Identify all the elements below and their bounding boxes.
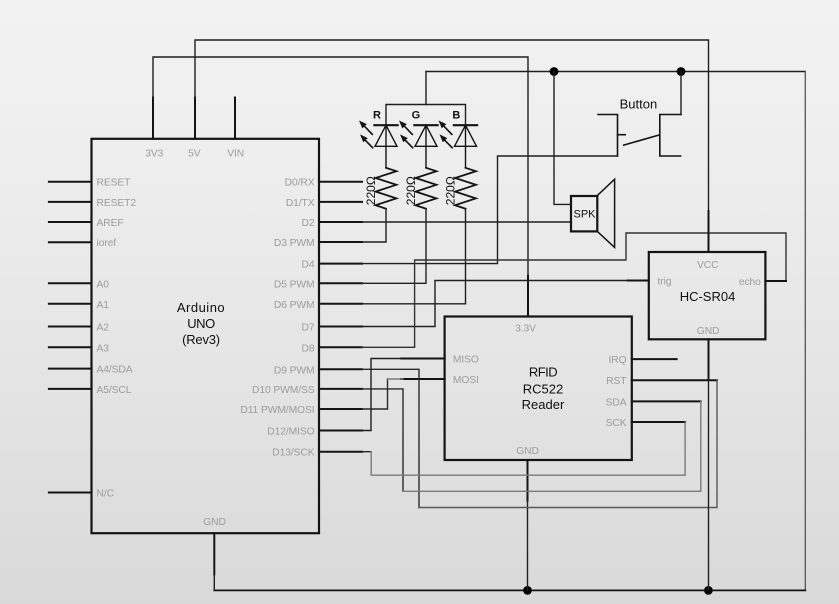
pin A5/SCL stub bbox=[49, 388, 92, 390]
HC-SR04 box U3 bbox=[649, 252, 766, 339]
wire R resistor to D3 bbox=[362, 209, 386, 242]
svg-text:RFID: RFID bbox=[529, 365, 557, 380]
svg-text:IRQ: IRQ bbox=[608, 355, 626, 366]
pin MOSI stub (RFID) bbox=[401, 378, 445, 380]
pin RESET stub bbox=[49, 181, 92, 183]
resistor R1 220Ω bbox=[376, 168, 397, 209]
wire 5V to HC-SR04 VCC bbox=[195, 40, 709, 252]
svg-text:D10 PWM/SS: D10 PWM/SS bbox=[252, 385, 315, 396]
node junction dot (button riser / GND rail) bbox=[677, 67, 686, 76]
svg-text:D4: D4 bbox=[302, 260, 315, 271]
svg-text:D2: D2 bbox=[302, 218, 315, 229]
svg-text:D6 PWM: D6 PWM bbox=[274, 300, 315, 311]
RFID RC522 Reader box U2 bbox=[445, 317, 632, 461]
svg-text:(Rev3): (Rev3) bbox=[182, 332, 220, 347]
svg-text:RC522: RC522 bbox=[523, 381, 563, 396]
node junction dot (speaker riser / GND rail) bbox=[550, 67, 559, 76]
pin 5V stub bbox=[194, 98, 196, 139]
RFID pin labels bbox=[453, 324, 627, 458]
pin VCC stub (HC-SR04) bbox=[708, 211, 710, 252]
pin RESET2 stub bbox=[49, 201, 92, 203]
svg-text:RESET2: RESET2 bbox=[97, 198, 137, 209]
wire D9 to RFID RST (near pin) bbox=[362, 369, 419, 507]
svg-text:B: B bbox=[452, 110, 460, 122]
svg-text:AREF: AREF bbox=[97, 218, 124, 229]
wire D2 to speaker bbox=[362, 221, 571, 223]
svg-text:GND: GND bbox=[697, 326, 720, 337]
speaker SPK bbox=[571, 179, 615, 247]
pin AREF stub bbox=[49, 221, 92, 223]
pin D11 PWM/MOSI stub bbox=[319, 408, 362, 410]
svg-text:VCC: VCC bbox=[697, 260, 719, 271]
wire D13 to RFID SCK (wrap) bbox=[371, 422, 685, 475]
wire RFID GND to bottom rail bbox=[527, 501, 529, 590]
wire Arduino GND riser bbox=[213, 575, 215, 591]
svg-text:A5/SCL: A5/SCL bbox=[97, 385, 132, 396]
wire D4 to button bbox=[362, 156, 618, 264]
svg-text:R: R bbox=[373, 110, 381, 122]
pin D6 PWM stub bbox=[319, 303, 362, 305]
svg-text:D0/RX: D0/RX bbox=[285, 178, 315, 189]
svg-text:D1/TX: D1/TX bbox=[286, 198, 315, 209]
svg-text:GND: GND bbox=[203, 517, 226, 528]
svg-text:A0: A0 bbox=[97, 279, 110, 290]
svg-text:D8: D8 bbox=[302, 343, 315, 354]
wire D10 to RFID SDA (wrap) bbox=[403, 401, 701, 491]
pin D13/SCK stub bbox=[319, 451, 362, 453]
wire 3V3 to RFID 3.3V bbox=[153, 57, 528, 317]
svg-text:SDA: SDA bbox=[606, 397, 627, 408]
pin A0 stub bbox=[49, 282, 92, 284]
wire D7 to HC-SR04 trig bbox=[362, 281, 649, 327]
Arduino left pin labels bbox=[97, 178, 137, 500]
svg-text:220Ω: 220Ω bbox=[364, 176, 378, 205]
HC-SR04 pin labels bbox=[658, 260, 762, 337]
pin 3.3V stub (RFID) bbox=[527, 276, 529, 317]
svg-text:echo: echo bbox=[739, 277, 761, 288]
svg-text:HC-SR04: HC-SR04 bbox=[680, 289, 736, 304]
svg-text:SPK: SPK bbox=[573, 209, 596, 221]
svg-text:GND: GND bbox=[516, 446, 539, 457]
pin D8 stub bbox=[319, 346, 362, 348]
pin D9 PWM stub bbox=[319, 368, 362, 370]
node junction dot (HC-SR04 GND / bottom rail) bbox=[704, 586, 713, 595]
svg-text:3.3V: 3.3V bbox=[515, 324, 536, 335]
pin echo stub (HC-SR04) bbox=[765, 280, 786, 282]
pin D1/TX stub bbox=[319, 201, 362, 203]
Arduino title text bbox=[177, 300, 225, 347]
node junction dot (RFID GND / bottom rail) bbox=[523, 586, 532, 595]
pin D3 PWM stub bbox=[319, 241, 362, 243]
svg-text:A1: A1 bbox=[97, 300, 110, 311]
pin A3 stub bbox=[49, 346, 92, 348]
pin GND stub (Arduino bottom) bbox=[213, 533, 215, 574]
svg-text:ioref: ioref bbox=[97, 238, 117, 249]
Arduino top pin labels bbox=[145, 148, 244, 159]
wire D11 to RFID MOSI (jog) bbox=[388, 378, 404, 380]
pin 3V3 stub bbox=[152, 98, 154, 139]
svg-text:UNO: UNO bbox=[187, 316, 215, 331]
pin D0/RX stub bbox=[319, 181, 362, 183]
svg-text:Reader: Reader bbox=[522, 397, 565, 412]
svg-text:Arduino: Arduino bbox=[177, 300, 225, 315]
wire D10 to RFID SDA (near pin) bbox=[362, 389, 403, 491]
wire D9 to RFID RST (wrap) bbox=[419, 380, 717, 507]
pin N/C stub bbox=[49, 492, 92, 494]
svg-text:220Ω: 220Ω bbox=[404, 176, 418, 205]
wire speaker to GND rail bbox=[554, 72, 571, 205]
pin A1 stub bbox=[49, 303, 92, 305]
svg-text:5V: 5V bbox=[188, 148, 201, 159]
pin trig stub (HC-SR04) bbox=[628, 280, 649, 282]
svg-text:MOSI: MOSI bbox=[453, 375, 479, 386]
wire HC-SR04 GND to bottom rail bbox=[708, 380, 710, 590]
svg-text:N/C: N/C bbox=[97, 489, 115, 500]
wire button riser to GND rail bbox=[680, 72, 682, 115]
pin MISO stub (RFID) bbox=[401, 358, 445, 360]
pin SCK stub (RFID) bbox=[632, 421, 685, 423]
wire D12 to RFID MISO bbox=[362, 359, 401, 431]
svg-text:MISO: MISO bbox=[453, 355, 479, 366]
svg-text:A2: A2 bbox=[97, 323, 110, 334]
wire GND top rail bbox=[426, 71, 805, 73]
LED B (D3) bbox=[439, 121, 478, 168]
wire G resistor to D5 bbox=[362, 209, 426, 284]
wire B resistor to D6 bbox=[362, 209, 466, 304]
svg-text:D9 PWM: D9 PWM bbox=[274, 365, 315, 376]
resistor R2 220Ω bbox=[416, 168, 437, 209]
pin A4/SDA stub bbox=[49, 368, 92, 370]
pin D5 PWM stub bbox=[319, 282, 362, 284]
resistor R3 220Ω bbox=[455, 168, 476, 209]
wire GND bottom rail bbox=[214, 589, 805, 591]
svg-text:220Ω: 220Ω bbox=[444, 176, 458, 205]
pin D4 stub bbox=[319, 263, 362, 265]
LED R (D1) bbox=[359, 121, 398, 168]
svg-text:D3 PWM: D3 PWM bbox=[274, 238, 315, 249]
svg-text:trig: trig bbox=[658, 277, 672, 288]
LED G (D2) bbox=[399, 121, 438, 168]
pin SDA stub (RFID) bbox=[632, 400, 701, 402]
svg-text:D7: D7 bbox=[302, 323, 315, 334]
label RFID RC522 Reader bbox=[522, 365, 565, 412]
switch SW1 (Button) bbox=[598, 115, 681, 157]
Arduino right pin labels bbox=[240, 178, 315, 459]
pin D2 stub bbox=[319, 221, 362, 223]
svg-text:D11 PWM/MOSI: D11 PWM/MOSI bbox=[240, 405, 314, 416]
svg-text:A3: A3 bbox=[97, 343, 110, 354]
svg-text:Button: Button bbox=[620, 96, 658, 111]
wire LED common-cathode bracket bbox=[386, 105, 466, 126]
pin IRQ stub (RFID) bbox=[632, 358, 677, 360]
svg-text:A4/SDA: A4/SDA bbox=[97, 365, 133, 376]
wire D11 to RFID MOSI (near pin) bbox=[362, 379, 388, 409]
wire D13 to RFID SCK (near pin) bbox=[362, 451, 371, 453]
wire D8 to HC-SR04 echo bbox=[362, 233, 786, 347]
pin GND stub (RFID) bbox=[527, 460, 529, 501]
Arduino UNO box U1 bbox=[92, 139, 320, 533]
pin GND stub (HC-SR04) bbox=[708, 339, 710, 380]
pin D7 stub bbox=[319, 326, 362, 328]
svg-text:SCK: SCK bbox=[606, 418, 627, 429]
wire LED bracket riser to GND rail bbox=[425, 72, 427, 105]
pin VIN stub bbox=[234, 98, 236, 139]
svg-text:D13/SCK: D13/SCK bbox=[272, 448, 314, 459]
svg-text:3V3: 3V3 bbox=[145, 148, 163, 159]
svg-text:RESET: RESET bbox=[97, 178, 132, 189]
pin D12/MISO stub bbox=[319, 430, 362, 432]
pin D10 PWM/SS stub bbox=[319, 388, 362, 390]
svg-text:VIN: VIN bbox=[227, 148, 244, 159]
svg-text:G: G bbox=[412, 110, 421, 122]
pin ioref stub bbox=[49, 241, 92, 243]
svg-text:RST: RST bbox=[606, 376, 627, 387]
pin A2 stub bbox=[49, 326, 92, 328]
wire GND right rail bbox=[804, 72, 806, 591]
svg-text:D5 PWM: D5 PWM bbox=[274, 279, 315, 290]
svg-text:D12/MISO: D12/MISO bbox=[267, 427, 314, 438]
pin RST stub (RFID) bbox=[632, 379, 717, 381]
